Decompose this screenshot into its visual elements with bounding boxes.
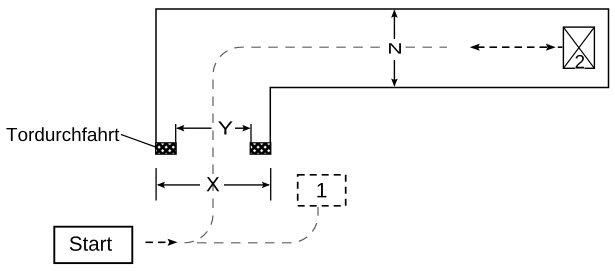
course boundary wall xyxy=(156,9,609,143)
label Y xyxy=(218,121,232,134)
label Tordurchfahrt xyxy=(6,127,119,141)
start arrow (black dashed with solid head) xyxy=(146,239,178,246)
gate post right (hatched) xyxy=(250,143,271,154)
driving path (gray dashed): start curve, gate passage, top run xyxy=(185,47,448,243)
label 1 xyxy=(317,183,326,197)
dimension N (vertical double arrow) xyxy=(384,10,406,87)
label X xyxy=(207,177,220,191)
box 2 (crossed target) xyxy=(563,27,594,68)
box 1 (dashed position) xyxy=(298,175,346,206)
gate post left (hatched) xyxy=(156,143,177,154)
shunting double arrow to box 2 (black dashed) xyxy=(470,44,563,51)
start box xyxy=(54,227,132,263)
branch into box 1 xyxy=(197,207,318,243)
label 2 xyxy=(575,55,584,68)
dimension X xyxy=(156,168,271,201)
label Start xyxy=(70,236,82,251)
top run right of N label xyxy=(406,46,448,48)
label N xyxy=(389,43,401,53)
dimension Y xyxy=(176,121,251,142)
leader line from label to left post xyxy=(121,135,157,148)
